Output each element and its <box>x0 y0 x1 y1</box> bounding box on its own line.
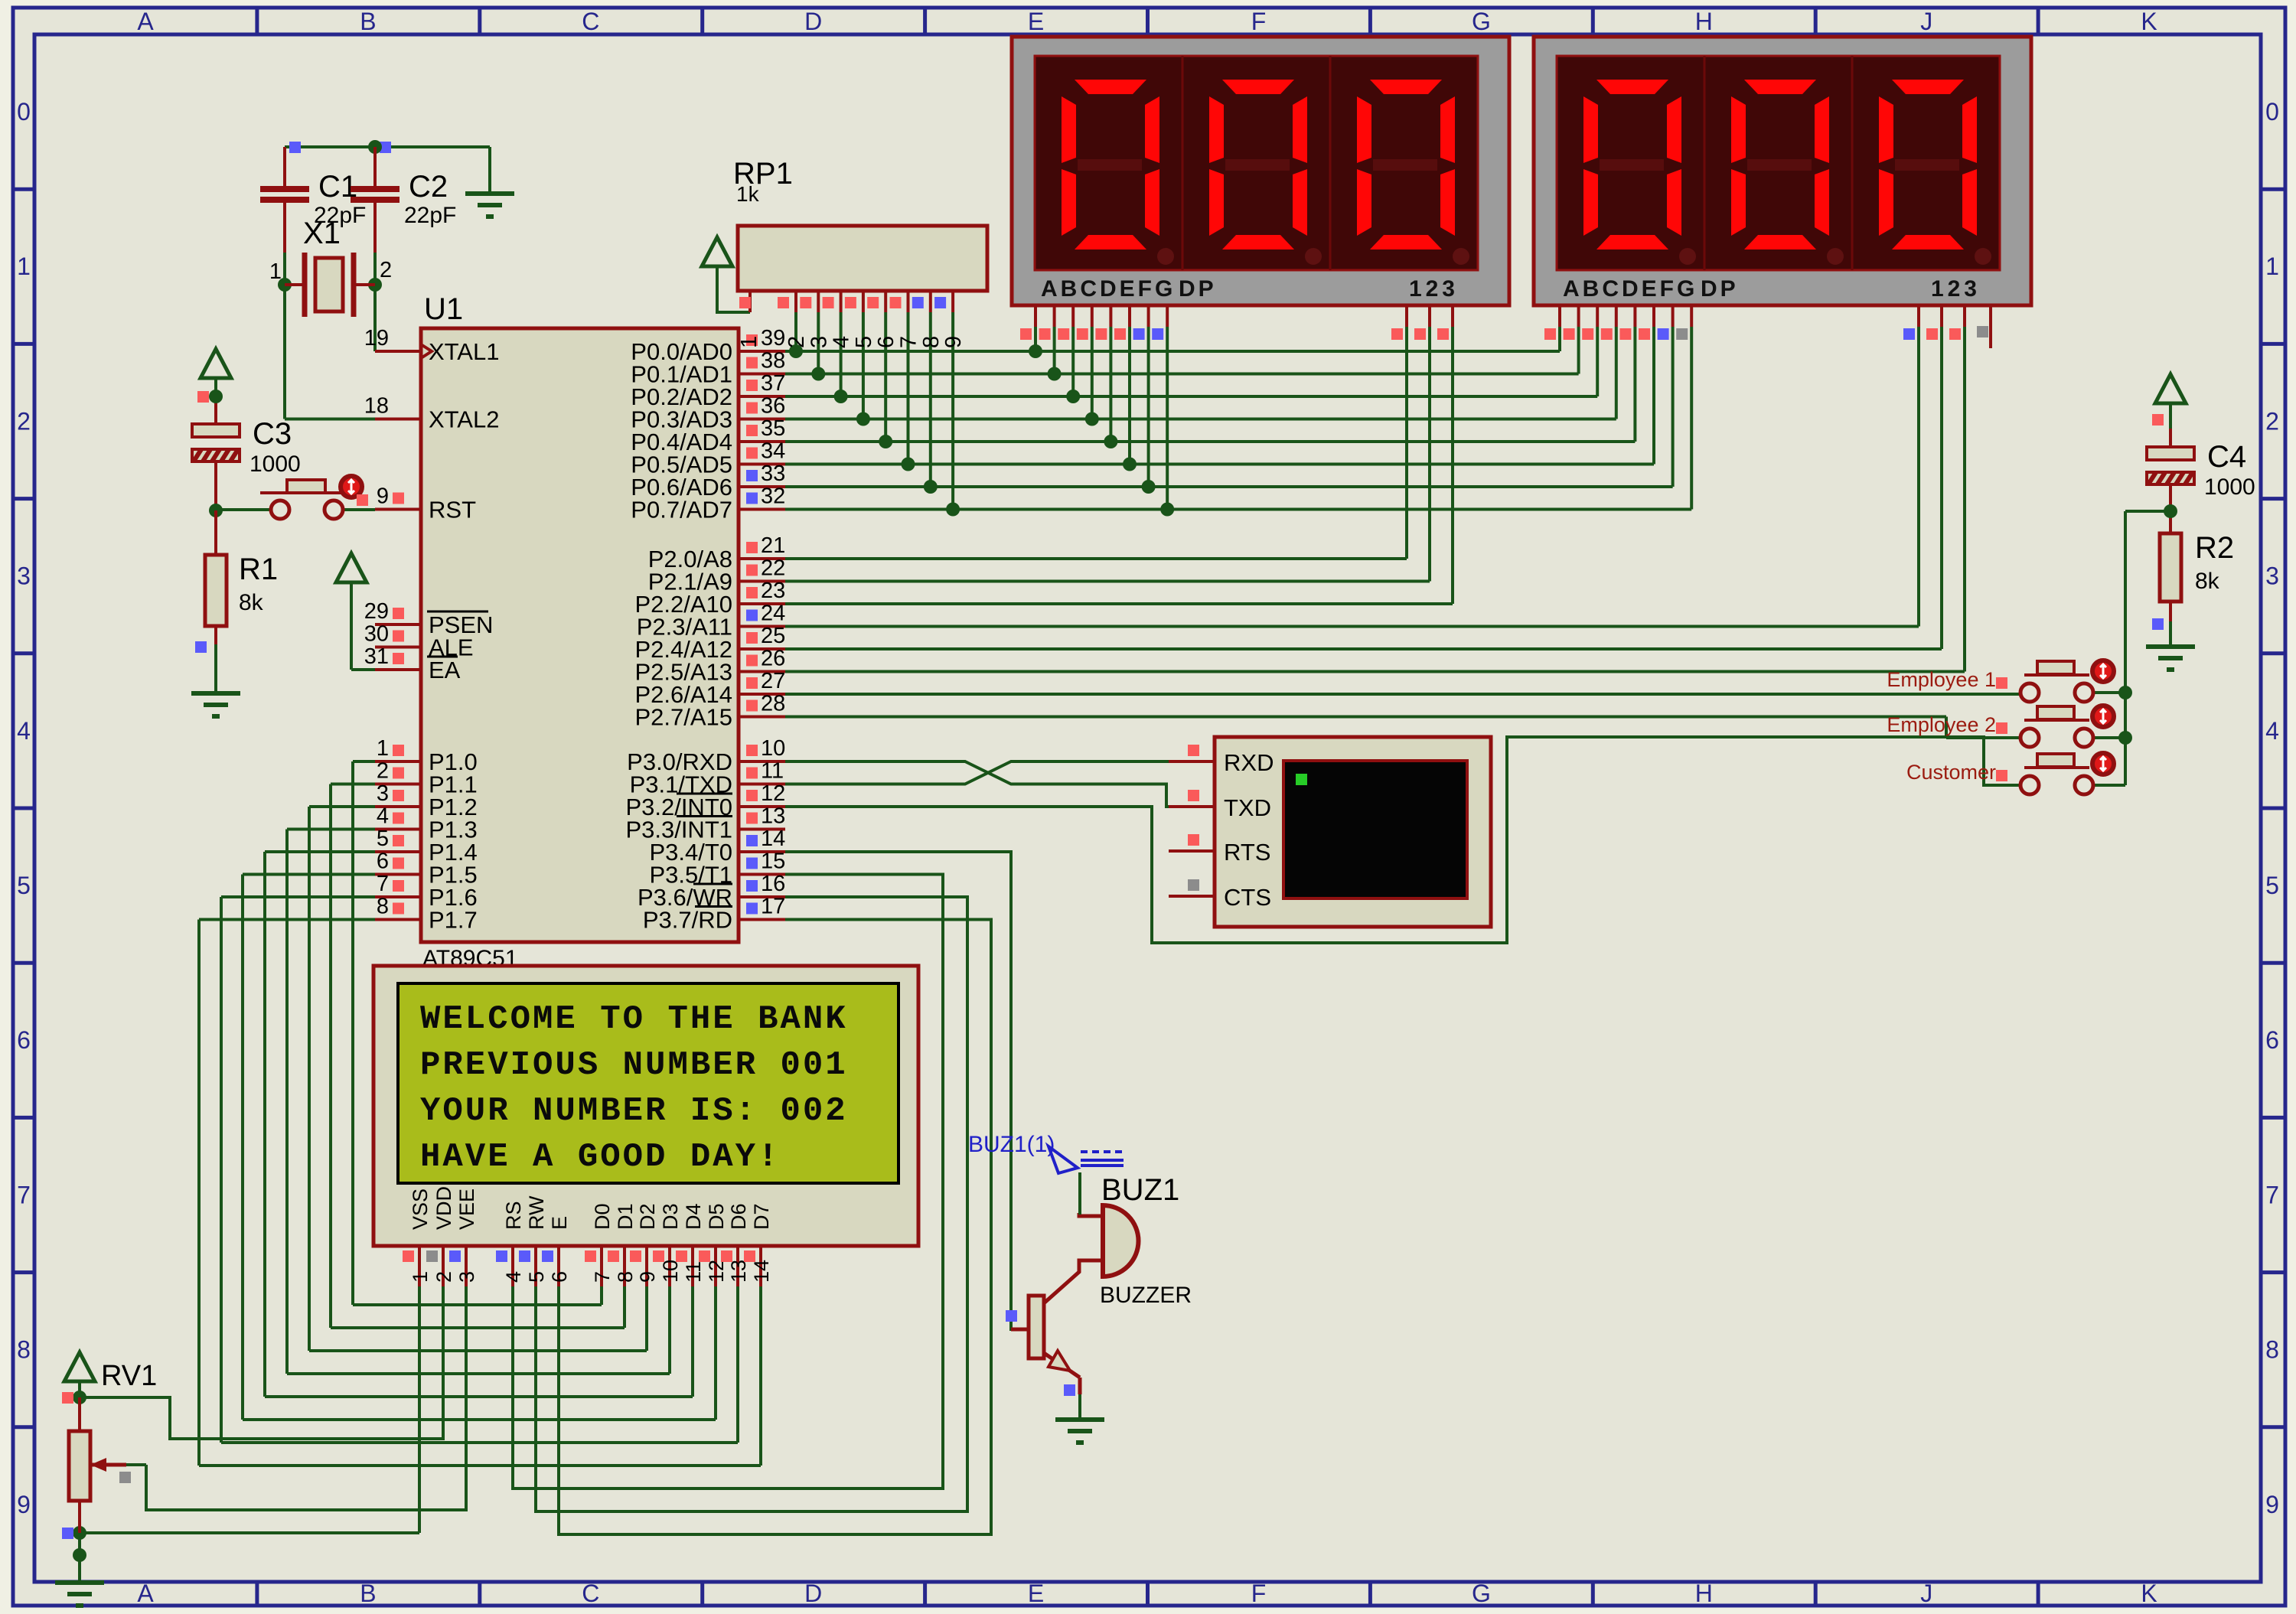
svg-text:J: J <box>1920 1580 1932 1607</box>
svg-text:1: 1 <box>269 259 282 284</box>
svg-text:4: 4 <box>17 717 31 745</box>
svg-text:2: 2 <box>377 759 389 784</box>
svg-text:1: 1 <box>737 336 762 348</box>
svg-text:D4: D4 <box>682 1203 705 1230</box>
svg-text:32: 32 <box>761 484 785 509</box>
svg-text:DP: DP <box>1701 276 1739 302</box>
svg-text:30: 30 <box>364 622 389 647</box>
svg-text:6: 6 <box>377 849 389 874</box>
svg-text:B: B <box>360 8 376 35</box>
svg-text:3: 3 <box>455 1271 478 1283</box>
svg-text:10: 10 <box>659 1260 682 1283</box>
svg-text:31: 31 <box>364 644 389 669</box>
svg-text:D6: D6 <box>727 1203 750 1230</box>
svg-text:C3: C3 <box>253 417 292 451</box>
svg-text:G: G <box>1472 1580 1491 1607</box>
svg-text:P1.7: P1.7 <box>429 907 478 934</box>
svg-text:RV1: RV1 <box>101 1360 157 1392</box>
svg-text:3: 3 <box>807 336 831 348</box>
svg-text:17: 17 <box>761 895 785 919</box>
svg-text:G: G <box>1472 8 1491 35</box>
svg-text:27: 27 <box>761 669 785 693</box>
svg-text:7: 7 <box>2265 1181 2279 1208</box>
svg-text:RW: RW <box>525 1195 548 1230</box>
svg-text:11: 11 <box>682 1261 705 1283</box>
svg-text:21: 21 <box>761 533 785 558</box>
svg-text:2: 2 <box>432 1271 455 1283</box>
svg-text:38: 38 <box>761 349 785 373</box>
svg-text:1: 1 <box>377 736 389 761</box>
svg-text:YOUR NUMBER IS: 002: YOUR NUMBER IS: 002 <box>420 1092 848 1130</box>
svg-text:6: 6 <box>17 1026 31 1054</box>
svg-text:2: 2 <box>784 336 809 348</box>
svg-text:19: 19 <box>364 326 389 351</box>
svg-text:6: 6 <box>548 1271 571 1283</box>
svg-text:8k: 8k <box>2195 569 2220 594</box>
svg-text:8k: 8k <box>239 590 264 615</box>
svg-text:15: 15 <box>761 849 785 874</box>
svg-text:4: 4 <box>2265 717 2279 745</box>
svg-text:D5: D5 <box>705 1203 728 1230</box>
svg-text:D3: D3 <box>659 1203 682 1230</box>
svg-text:7: 7 <box>377 872 389 896</box>
svg-text:8: 8 <box>17 1336 31 1364</box>
svg-text:EA: EA <box>429 657 461 683</box>
svg-text:7: 7 <box>17 1181 31 1208</box>
svg-text:B: B <box>360 1580 376 1607</box>
svg-text:VSS: VSS <box>409 1188 432 1230</box>
svg-text:ABCDEFG: ABCDEFG <box>1563 276 1698 302</box>
svg-text:14: 14 <box>750 1260 773 1283</box>
svg-text:R1: R1 <box>239 553 278 586</box>
svg-text:39: 39 <box>761 326 785 351</box>
svg-text:0: 0 <box>17 98 31 126</box>
svg-text:P0.7/AD7: P0.7/AD7 <box>631 497 732 523</box>
svg-text:H: H <box>1695 8 1713 35</box>
svg-text:8: 8 <box>614 1271 637 1283</box>
svg-text:14: 14 <box>761 827 785 851</box>
svg-text:22pF: 22pF <box>404 203 456 228</box>
svg-text:18: 18 <box>364 394 389 419</box>
svg-text:BUZ1: BUZ1 <box>1101 1173 1179 1207</box>
svg-text:Employee 1: Employee 1 <box>1887 668 1996 691</box>
svg-text:5: 5 <box>377 827 389 851</box>
svg-text:VEE: VEE <box>455 1188 478 1230</box>
svg-text:K: K <box>2141 8 2157 35</box>
svg-text:1: 1 <box>17 253 31 280</box>
svg-text:1: 1 <box>2265 253 2279 280</box>
svg-text:8: 8 <box>919 336 944 348</box>
svg-text:HAVE A GOOD DAY!: HAVE A GOOD DAY! <box>420 1138 780 1176</box>
svg-text:Employee 2: Employee 2 <box>1887 713 1996 736</box>
svg-text:1000: 1000 <box>249 452 301 477</box>
svg-text:P3.7/RD: P3.7/RD <box>643 907 732 934</box>
svg-text:37: 37 <box>761 371 785 396</box>
svg-text:XTAL2: XTAL2 <box>429 406 499 433</box>
svg-text:P2.7/A15: P2.7/A15 <box>634 704 732 731</box>
svg-text:F: F <box>1251 8 1267 35</box>
svg-text:34: 34 <box>761 439 785 464</box>
svg-text:RST: RST <box>429 497 476 523</box>
svg-text:36: 36 <box>761 394 785 419</box>
svg-text:33: 33 <box>761 461 785 486</box>
svg-text:9: 9 <box>941 336 966 348</box>
svg-text:TXD: TXD <box>1224 794 1271 821</box>
svg-text:K: K <box>2141 1580 2157 1607</box>
svg-text:R2: R2 <box>2195 531 2234 565</box>
svg-text:6: 6 <box>874 336 899 348</box>
svg-text:D0: D0 <box>591 1203 614 1230</box>
svg-text:9: 9 <box>17 1491 31 1518</box>
svg-text:25: 25 <box>761 624 785 648</box>
svg-text:4: 4 <box>377 804 389 829</box>
svg-text:7: 7 <box>897 336 921 348</box>
svg-text:28: 28 <box>761 692 785 716</box>
svg-text:1000: 1000 <box>2204 474 2255 500</box>
svg-text:2: 2 <box>2265 407 2279 435</box>
svg-text:4: 4 <box>830 336 854 348</box>
svg-text:4: 4 <box>502 1271 525 1283</box>
svg-text:Customer: Customer <box>1906 761 1996 784</box>
svg-text:F: F <box>1251 1580 1267 1607</box>
svg-text:35: 35 <box>761 416 785 441</box>
svg-text:U1: U1 <box>424 292 463 326</box>
svg-text:A: A <box>137 8 154 35</box>
svg-text:D1: D1 <box>614 1203 637 1230</box>
svg-text:9: 9 <box>377 484 389 509</box>
svg-text:9: 9 <box>2265 1491 2279 1518</box>
svg-text:PREVIOUS NUMBER 001: PREVIOUS NUMBER 001 <box>420 1046 848 1084</box>
svg-text:BUZ1(1): BUZ1(1) <box>968 1132 1055 1157</box>
svg-text:D: D <box>804 1580 822 1607</box>
svg-text:J: J <box>1920 8 1932 35</box>
svg-text:1: 1 <box>409 1271 432 1283</box>
svg-text:29: 29 <box>364 599 389 624</box>
svg-text:12: 12 <box>705 1260 728 1283</box>
svg-text:5: 5 <box>2265 872 2279 899</box>
svg-text:VDD: VDD <box>432 1186 455 1230</box>
svg-text:8: 8 <box>377 895 389 919</box>
svg-text:23: 23 <box>761 579 785 603</box>
svg-text:D7: D7 <box>750 1203 773 1230</box>
svg-text:26: 26 <box>761 647 785 671</box>
svg-text:D: D <box>804 8 822 35</box>
svg-text:11: 11 <box>761 759 784 784</box>
svg-text:8: 8 <box>2265 1336 2279 1364</box>
svg-text:RTS: RTS <box>1224 839 1270 866</box>
svg-text:C: C <box>582 8 599 35</box>
svg-text:X1: X1 <box>303 217 341 250</box>
svg-text:3: 3 <box>2265 562 2279 590</box>
svg-text:9: 9 <box>636 1271 659 1283</box>
svg-text:2: 2 <box>380 258 392 282</box>
svg-text:E: E <box>1028 8 1044 35</box>
svg-text:13: 13 <box>727 1260 750 1283</box>
svg-text:13: 13 <box>761 804 785 829</box>
svg-text:XTAL1: XTAL1 <box>429 338 499 365</box>
svg-text:123: 123 <box>1931 276 1981 302</box>
svg-text:12: 12 <box>761 781 785 806</box>
svg-text:BUZZER: BUZZER <box>1100 1283 1192 1308</box>
svg-text:3: 3 <box>377 781 389 806</box>
svg-text:RXD: RXD <box>1224 749 1274 776</box>
svg-text:C2: C2 <box>409 170 448 204</box>
svg-text:RS: RS <box>502 1201 525 1230</box>
svg-text:3: 3 <box>17 562 31 590</box>
svg-text:E: E <box>548 1216 571 1230</box>
svg-text:C4: C4 <box>2207 440 2246 474</box>
svg-text:16: 16 <box>761 872 785 896</box>
svg-text:DP: DP <box>1179 276 1217 302</box>
svg-text:7: 7 <box>591 1271 614 1283</box>
svg-text:123: 123 <box>1409 276 1459 302</box>
svg-text:H: H <box>1695 1580 1713 1607</box>
svg-text:E: E <box>1028 1580 1044 1607</box>
svg-text:2: 2 <box>17 407 31 435</box>
svg-text:10: 10 <box>761 736 785 761</box>
svg-text:A: A <box>137 1580 154 1607</box>
svg-text:WELCOME TO THE BANK: WELCOME TO THE BANK <box>420 1000 848 1039</box>
svg-text:6: 6 <box>2265 1026 2279 1054</box>
svg-text:ABCDEFG: ABCDEFG <box>1041 276 1176 302</box>
svg-text:1k: 1k <box>736 182 760 206</box>
svg-text:5: 5 <box>17 872 31 899</box>
svg-text:22: 22 <box>761 556 785 581</box>
svg-text:CTS: CTS <box>1224 884 1271 911</box>
svg-text:24: 24 <box>761 602 785 626</box>
svg-text:5: 5 <box>525 1271 548 1283</box>
svg-text:D2: D2 <box>636 1203 659 1230</box>
svg-text:5: 5 <box>852 336 876 348</box>
svg-text:C: C <box>582 1580 599 1607</box>
svg-text:0: 0 <box>2265 98 2279 126</box>
